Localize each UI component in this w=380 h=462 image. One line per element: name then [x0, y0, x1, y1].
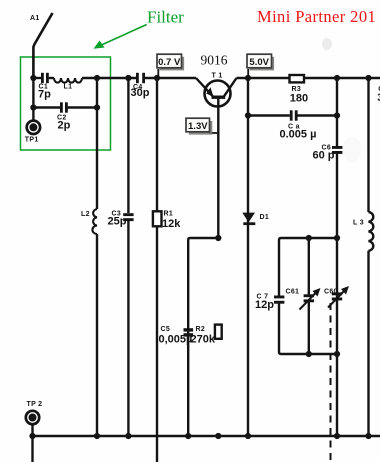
node: filter right top: [94, 75, 100, 81]
wire: C6 branch vertical: [336, 78, 338, 436]
svg-text:TP1: TP1: [25, 137, 39, 144]
node: L3 branch top: [365, 75, 371, 81]
svg-text:270k: 270k: [191, 334, 216, 346]
svg-text:1.3V: 1.3V: [188, 121, 208, 132]
trimmer network box: top rail: [279, 238, 337, 354]
transistor T1: [196, 78, 237, 238]
svg-text:5.0V: 5.0V: [249, 57, 269, 68]
wire: D1 branch vertical: [247, 78, 249, 436]
green annotation arrow: [94, 25, 147, 49]
svg-text:Mini Partner 201: Mini Partner 201: [257, 7, 376, 26]
svg-text:9016: 9016: [201, 53, 228, 68]
svg-text:T 1: T 1: [212, 73, 223, 80]
node: base junction: [215, 235, 221, 241]
ground bus: [33, 435, 380, 437]
svg-text:R2: R2: [196, 326, 206, 333]
node: filter right lower: [94, 104, 100, 110]
capacitor C6: [332, 146, 342, 154]
resistor R2: [215, 325, 222, 339]
scan smudge: [322, 38, 332, 50]
svg-text:L1: L1: [64, 84, 73, 91]
wire: L3 branch vertical: [367, 78, 369, 436]
svg-text:L 3: L 3: [353, 220, 364, 227]
node: C61 bottom: [306, 351, 312, 357]
node: Ca left: [245, 112, 251, 118]
inductor L2: [92, 108, 97, 437]
diode D1: [242, 213, 255, 223]
node: C3 branch top: [125, 75, 131, 81]
node: C6 branch top: [334, 75, 340, 81]
resistor R3: [290, 75, 305, 82]
node: collector rail / D1 branch top: [245, 75, 251, 81]
svg-text:0,005µ: 0,005µ: [159, 334, 193, 346]
voltage box 1.3V: [186, 118, 218, 134]
svg-text:12k: 12k: [162, 218, 181, 230]
capacitor C2: [60, 102, 68, 112]
svg-text:C5: C5: [161, 326, 171, 333]
svg-text:A1: A1: [30, 15, 40, 22]
node: Ca right: [334, 112, 340, 118]
svg-text:0.7 V: 0.7 V: [158, 57, 181, 68]
voltage box 0.7V: [157, 54, 184, 78]
svg-text:30p: 30p: [131, 87, 150, 99]
inductor L1: [54, 78, 82, 83]
green filter box: [21, 57, 111, 150]
svg-text:60 p: 60 p: [313, 150, 335, 162]
node: antenna input: [30, 75, 36, 81]
voltage box 5.0V: [247, 54, 274, 78]
svg-text:7p: 7p: [38, 89, 51, 101]
node: box right bottom: [334, 351, 340, 357]
capacitor C1: [41, 73, 49, 83]
svg-text:C61: C61: [286, 289, 300, 296]
test point TP1: [27, 121, 40, 134]
wire: Ca horizontal link: [248, 114, 337, 116]
svg-text:180: 180: [290, 93, 308, 105]
svg-text:2p: 2p: [58, 120, 71, 132]
svg-text:TP 2: TP 2: [27, 401, 43, 408]
node: C61 top: [306, 235, 312, 241]
inductor L3: [369, 212, 374, 251]
wire: main top rail y=78: [33, 77, 380, 79]
svg-text:Filter: Filter: [147, 8, 184, 27]
dashed linkage line: [330, 303, 332, 462]
wire: base to C5 branch: [188, 238, 218, 436]
svg-text:25p: 25p: [108, 216, 127, 228]
test point TP2: [26, 411, 39, 424]
node: filter left lower: [30, 104, 36, 110]
trimmer capacitor C61: [308, 238, 310, 354]
wire: TP2 to bus: [31, 424, 33, 462]
svg-text:L2: L2: [81, 211, 90, 218]
svg-text:D1: D1: [260, 214, 270, 221]
capacitor C3 with branch wire: [127, 78, 129, 436]
capacitor C5: [184, 328, 194, 336]
trimmer capacitor C60: [332, 292, 342, 300]
svg-text:12p: 12p: [255, 299, 274, 311]
resistor R1 with branch wire: [156, 78, 158, 462]
svg-text:0.005 µ: 0.005 µ: [280, 129, 317, 141]
capacitor Ca: [290, 110, 298, 120]
svg-text:R1: R1: [164, 211, 174, 218]
capacitor C4: [136, 73, 145, 83]
node: R1 branch top: [154, 75, 160, 81]
node: box right top: [334, 235, 340, 241]
capacitor C7: [274, 296, 284, 304]
wire: filter lower branch: [33, 78, 97, 121]
svg-text:C60: C60: [324, 289, 338, 296]
node: bus junctions: [29, 433, 35, 439]
antenna A1: [33, 13, 52, 78]
transistor T1 emitter arrow: [206, 87, 213, 97]
